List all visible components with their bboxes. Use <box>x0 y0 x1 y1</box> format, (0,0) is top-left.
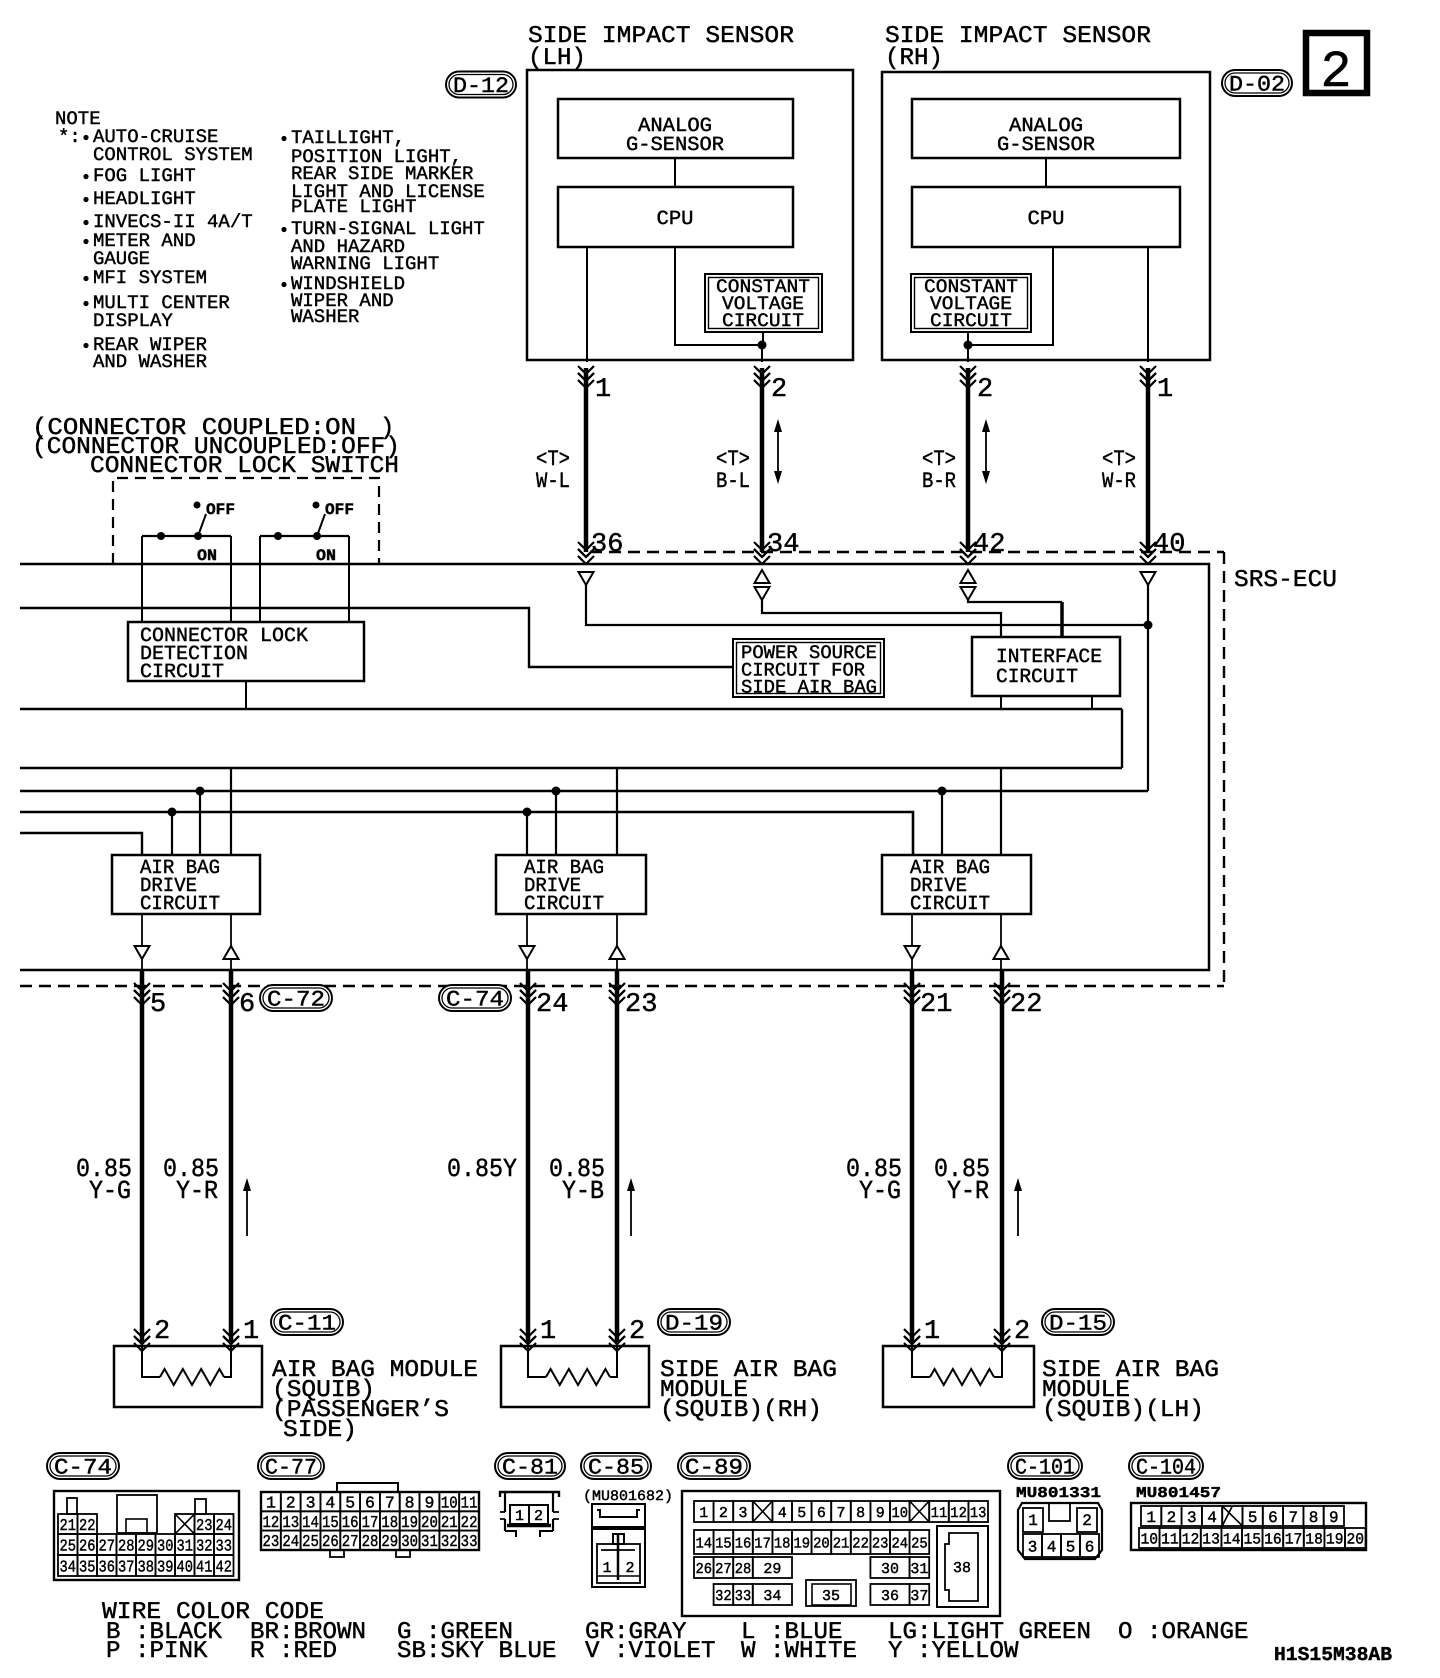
svg-text:39: 39 <box>157 1557 174 1576</box>
connector C-104 pinout label <box>1129 1453 1203 1479</box>
power source circuit box <box>733 639 884 697</box>
svg-text:42: 42 <box>216 1557 233 1576</box>
wire pin36 to node <box>586 585 1148 625</box>
svg-text:CIRCUIT: CIRCUIT <box>930 310 1012 332</box>
svg-text:SIDE AIR BAG: SIDE AIR BAG <box>741 677 877 699</box>
svg-text:CIRCUIT: CIRCUIT <box>140 661 224 684</box>
connector C-101 body <box>1018 1503 1102 1559</box>
svg-text:C-77: C-77 <box>265 1455 317 1480</box>
svg-text:30: 30 <box>881 1561 899 1578</box>
svg-text:22: 22 <box>852 1535 869 1552</box>
svg-text:33: 33 <box>461 1532 478 1551</box>
svg-text:26: 26 <box>322 1532 339 1551</box>
side air bag module squib LH <box>883 1346 1034 1407</box>
bus line L2 to power source <box>20 608 733 667</box>
svg-text:15: 15 <box>322 1513 339 1532</box>
connector C-77 bottom tabs <box>330 1550 344 1557</box>
svg-text:O :ORANGE: O :ORANGE <box>1118 1619 1249 1646</box>
svg-text:18: 18 <box>774 1535 791 1552</box>
harness wires x528/617 <box>526 970 531 1342</box>
svg-text:21: 21 <box>60 1516 77 1535</box>
svg-text:Y-B: Y-B <box>562 1176 604 1206</box>
svg-text:6: 6 <box>1268 1509 1278 1527</box>
svg-text:CIRCUIT: CIRCUIT <box>910 893 990 916</box>
svg-text:30: 30 <box>157 1536 174 1555</box>
svg-text:14: 14 <box>302 1513 319 1532</box>
wire cpu to node RH <box>968 247 1053 345</box>
drive box outputs x912 <box>911 914 913 946</box>
svg-text:P :PINK: P :PINK <box>106 1638 208 1665</box>
svg-text:23: 23 <box>196 1516 213 1535</box>
twisted pair arrow left <box>777 423 779 480</box>
svg-text:C-104: C-104 <box>1136 1455 1196 1480</box>
connector C-81 pinout label <box>495 1453 565 1479</box>
svg-text:B-L: B-L <box>716 469 750 494</box>
svg-text:2: 2 <box>771 375 787 405</box>
svg-text:WASHER: WASHER <box>291 306 359 328</box>
svg-text:9: 9 <box>1329 1509 1339 1527</box>
svg-text:32: 32 <box>441 1532 458 1551</box>
switch 1 <box>142 535 231 537</box>
svg-text:26: 26 <box>696 1561 713 1578</box>
svg-text:36: 36 <box>99 1557 116 1576</box>
svg-text:8: 8 <box>405 1494 415 1513</box>
drive box1 input wires <box>168 808 177 817</box>
cpu LH <box>558 187 793 247</box>
svg-text:28: 28 <box>735 1561 752 1578</box>
svg-text:18: 18 <box>381 1513 398 1532</box>
svg-text:25: 25 <box>302 1532 319 1551</box>
svg-text:3: 3 <box>1187 1509 1197 1527</box>
svg-text:ON: ON <box>197 547 217 565</box>
svg-text:2: 2 <box>534 1508 543 1525</box>
side impact sensor LH box <box>527 70 853 360</box>
svg-text:21: 21 <box>441 1513 458 1532</box>
svg-text:29: 29 <box>763 1561 781 1578</box>
svg-text:OFF: OFF <box>325 501 354 519</box>
svg-text:2: 2 <box>286 1494 296 1513</box>
svg-text:9: 9 <box>876 1505 885 1522</box>
svg-text:21: 21 <box>920 990 952 1020</box>
svg-text:6: 6 <box>365 1494 375 1513</box>
drive box outputs x142 <box>141 914 143 946</box>
sensor output arrow pin 2 x968 <box>960 366 976 374</box>
bus line L6 <box>20 812 913 855</box>
svg-text:C-85: C-85 <box>588 1455 644 1480</box>
svg-text:WARNING LIGHT: WARNING LIGHT <box>291 253 439 275</box>
connector C-89 body <box>682 1491 1000 1616</box>
drive box outputs x527 <box>526 914 528 946</box>
connector D-19 <box>658 1309 730 1335</box>
svg-text:3: 3 <box>1028 1538 1038 1556</box>
direction arrow <box>1017 1182 1019 1236</box>
side impact sensor RH box <box>882 72 1210 360</box>
svg-text:12: 12 <box>950 1505 967 1522</box>
constant voltage circuit LH <box>705 274 822 332</box>
wire cvc to node RH <box>967 332 969 345</box>
svg-text:D-02: D-02 <box>1229 72 1285 97</box>
twisted pair arrow right <box>985 423 987 480</box>
svg-text:25: 25 <box>60 1536 77 1555</box>
svg-text:Y-R: Y-R <box>947 1176 989 1206</box>
svg-text:2: 2 <box>1167 1509 1177 1527</box>
svg-text:16: 16 <box>342 1513 359 1532</box>
side air bag module squib RH <box>501 1346 649 1407</box>
sensor output arrow pin 1 x1148 <box>1140 366 1156 374</box>
svg-text:6: 6 <box>817 1505 826 1522</box>
svg-text:17: 17 <box>754 1535 771 1552</box>
svg-text:20: 20 <box>1347 1531 1365 1549</box>
svg-text:5: 5 <box>1248 1509 1258 1527</box>
svg-text:1: 1 <box>1146 1509 1156 1527</box>
svg-text:11: 11 <box>1161 1531 1179 1549</box>
switch 1 wires <box>141 536 143 622</box>
svg-text:4: 4 <box>1047 1538 1057 1556</box>
svg-text:34: 34 <box>763 1588 781 1605</box>
ECU input triangle pin40 <box>1141 572 1156 585</box>
svg-text:G-SENSOR: G-SENSOR <box>997 134 1095 157</box>
svg-text:24: 24 <box>892 1535 909 1552</box>
svg-text:32: 32 <box>196 1536 213 1555</box>
constant voltage circuit RH <box>911 274 1031 332</box>
svg-text:(SQUIB)(LH): (SQUIB)(LH) <box>1042 1397 1204 1424</box>
connector C-77 top tab <box>337 1483 398 1491</box>
svg-text:2: 2 <box>154 1317 170 1347</box>
svg-text:37: 37 <box>118 1557 135 1576</box>
svg-text:CIRCUIT: CIRCUIT <box>140 893 220 916</box>
wire cvc to node LH <box>762 332 764 345</box>
sensor output arrow pin 1 x586 <box>578 366 594 374</box>
SRS-ECU dashed box <box>590 551 1224 553</box>
wire detection to bus <box>245 681 247 709</box>
svg-text:9: 9 <box>425 1494 435 1513</box>
svg-text:PLATE LIGHT: PLATE LIGHT <box>291 196 416 218</box>
svg-text:*:: *: <box>58 126 81 148</box>
svg-text:10: 10 <box>1141 1531 1159 1549</box>
svg-text:40: 40 <box>177 1557 194 1576</box>
svg-text:14: 14 <box>1223 1531 1241 1549</box>
svg-text:18: 18 <box>1305 1531 1323 1549</box>
svg-text:16: 16 <box>1264 1531 1282 1549</box>
svg-text:R :RED: R :RED <box>250 1638 337 1665</box>
junction pin36/40 <box>1144 621 1153 630</box>
svg-text:34: 34 <box>60 1557 77 1576</box>
analog g-sensor LH <box>558 99 793 158</box>
svg-text:42: 42 <box>973 530 1005 560</box>
air bag drive circuit 2 <box>496 855 646 914</box>
svg-text:CONNECTOR LOCK SWITCH: CONNECTOR LOCK SWITCH <box>90 453 399 480</box>
svg-text:23: 23 <box>625 990 657 1020</box>
air bag module squib passenger <box>114 1346 262 1407</box>
svg-text:29: 29 <box>381 1532 398 1551</box>
svg-text:10: 10 <box>441 1494 458 1513</box>
svg-text:2: 2 <box>625 1560 634 1577</box>
svg-text:C-81: C-81 <box>502 1455 558 1480</box>
svg-text:40: 40 <box>1153 530 1185 560</box>
svg-text:20: 20 <box>813 1535 830 1552</box>
connector C-72 <box>260 985 332 1011</box>
svg-text:41: 41 <box>196 1557 213 1576</box>
svg-text:C-89: C-89 <box>685 1455 743 1480</box>
svg-text:1: 1 <box>699 1505 708 1522</box>
SRS-ECU inner box <box>20 564 1209 970</box>
switch 2 wires <box>259 536 261 622</box>
harness wires x142/231 <box>140 970 145 1342</box>
svg-text:11: 11 <box>461 1494 478 1513</box>
wire cpu pin1 RH <box>1147 247 1149 362</box>
wire sensor to SRS-ECU x586 <box>584 368 589 552</box>
svg-text:15: 15 <box>715 1535 732 1552</box>
direction arrow <box>246 1182 248 1236</box>
bus band bottom L4 <box>20 767 1122 770</box>
svg-text:7: 7 <box>837 1505 846 1522</box>
svg-text:34: 34 <box>767 530 799 560</box>
svg-text:1: 1 <box>266 1494 276 1513</box>
svg-text:C-74: C-74 <box>446 987 504 1012</box>
svg-text:20: 20 <box>421 1513 438 1532</box>
svg-text:C-74: C-74 <box>54 1455 112 1480</box>
svg-text:1: 1 <box>1028 1512 1038 1530</box>
svg-text:B-R: B-R <box>922 469 956 494</box>
svg-text:2: 2 <box>1014 1317 1030 1347</box>
svg-text:1: 1 <box>243 1317 259 1347</box>
svg-text:DISPLAY: DISPLAY <box>93 310 173 332</box>
svg-text:CIRCUIT: CIRCUIT <box>996 666 1078 689</box>
svg-text:5: 5 <box>797 1505 806 1522</box>
svg-text:25: 25 <box>911 1535 928 1552</box>
svg-text:24: 24 <box>216 1516 233 1535</box>
connector D-02 <box>1222 70 1292 96</box>
svg-text:C-72: C-72 <box>267 987 325 1012</box>
svg-text:24: 24 <box>282 1532 299 1551</box>
wire node to pin2 LH <box>761 345 763 362</box>
page number badge 2 <box>1306 33 1367 93</box>
bus band top L3 <box>20 708 1122 711</box>
svg-text:5: 5 <box>1066 1538 1076 1556</box>
svg-text:V :VIOLET: V :VIOLET <box>585 1638 716 1665</box>
svg-text:5: 5 <box>150 990 166 1020</box>
connector C-74 pinout label <box>47 1453 119 1479</box>
svg-text:27: 27 <box>342 1532 359 1551</box>
svg-text:7: 7 <box>385 1494 395 1513</box>
svg-text:W-L: W-L <box>536 469 570 494</box>
bus band right edge <box>1121 709 1123 768</box>
svg-text:1: 1 <box>515 1508 524 1525</box>
svg-text:26: 26 <box>79 1536 96 1555</box>
svg-text:19: 19 <box>794 1535 811 1552</box>
svg-text:(MU801682): (MU801682) <box>583 1489 673 1505</box>
air bag drive circuit 3 <box>882 855 1031 914</box>
svg-text:24: 24 <box>536 990 568 1020</box>
svg-text:27: 27 <box>715 1561 732 1578</box>
svg-text:33: 33 <box>735 1588 752 1605</box>
svg-text:SIDE): SIDE) <box>283 1417 357 1444</box>
connector C-104 body <box>1131 1503 1366 1550</box>
svg-text:38: 38 <box>138 1557 155 1576</box>
connector C-89 cavity 38 <box>937 1526 988 1607</box>
svg-text:CIRCUIT: CIRCUIT <box>524 893 604 916</box>
svg-text:12: 12 <box>1182 1531 1200 1549</box>
connector D-15 <box>1042 1309 1114 1335</box>
svg-text:H1S15M38AB: H1S15M38AB <box>1274 1644 1392 1666</box>
wire cpu pin1 LH <box>586 247 588 362</box>
svg-text:14: 14 <box>696 1535 713 1552</box>
svg-text:2: 2 <box>719 1505 728 1522</box>
svg-text:36: 36 <box>881 1588 899 1605</box>
svg-text:0.85Y: 0.85Y <box>447 1154 517 1184</box>
svg-text:Y-R: Y-R <box>176 1176 218 1206</box>
wire cpu to node LH <box>675 247 762 345</box>
svg-text:AND WASHER: AND WASHER <box>93 351 207 373</box>
analog g-sensor RH <box>912 99 1180 158</box>
svg-text:1: 1 <box>540 1317 556 1347</box>
svg-text:4: 4 <box>325 1494 335 1513</box>
svg-text:2: 2 <box>1320 43 1351 102</box>
svg-text:(SQUIB)(RH): (SQUIB)(RH) <box>660 1397 822 1424</box>
svg-text:35: 35 <box>79 1557 96 1576</box>
svg-text:CIRCUIT: CIRCUIT <box>722 310 804 332</box>
svg-text:CPU: CPU <box>657 208 694 231</box>
svg-text:23: 23 <box>872 1535 889 1552</box>
air bag drive circuit 1 <box>112 855 260 914</box>
svg-text:Y-G: Y-G <box>859 1176 901 1206</box>
bus line L7 <box>20 833 142 855</box>
cpu RH <box>912 187 1180 247</box>
svg-text:4: 4 <box>778 1505 787 1522</box>
junction node RH <box>964 341 973 350</box>
svg-text:31: 31 <box>421 1532 438 1551</box>
harness wires x912/1002 <box>910 970 915 1342</box>
interface circuit box <box>972 637 1120 696</box>
svg-text:19: 19 <box>1326 1531 1344 1549</box>
svg-text:13: 13 <box>970 1505 987 1522</box>
svg-text:C-11: C-11 <box>278 1311 336 1336</box>
svg-text:D-15: D-15 <box>1049 1311 1107 1336</box>
wire sensor to SRS-ECU x762 <box>760 368 765 552</box>
svg-text:2: 2 <box>977 375 993 405</box>
connector lock switch dashed box <box>113 478 379 564</box>
svg-text:36: 36 <box>591 530 623 560</box>
svg-text:ON: ON <box>316 547 336 565</box>
svg-text:13: 13 <box>1202 1531 1220 1549</box>
svg-text:8: 8 <box>856 1505 865 1522</box>
svg-text:19: 19 <box>401 1513 418 1532</box>
svg-text:2: 2 <box>629 1317 645 1347</box>
svg-text:D-12: D-12 <box>453 74 509 99</box>
svg-text:23: 23 <box>263 1532 280 1551</box>
svg-text:17: 17 <box>1285 1531 1303 1549</box>
wire sensor to SRS-ECU x1148 <box>1146 368 1151 552</box>
svg-text:2: 2 <box>1082 1512 1092 1530</box>
ECU input triangle pin36 <box>579 572 594 585</box>
svg-text:CONTROL SYSTEM: CONTROL SYSTEM <box>93 144 253 166</box>
svg-text:7: 7 <box>1288 1509 1298 1527</box>
svg-text:MFI SYSTEM: MFI SYSTEM <box>93 267 207 289</box>
svg-text:22: 22 <box>461 1513 478 1532</box>
svg-text:HEADLIGHT: HEADLIGHT <box>93 188 196 210</box>
svg-text:31: 31 <box>910 1561 928 1578</box>
connector C-101 pinout label <box>1008 1453 1082 1479</box>
connector D-12 <box>446 72 516 98</box>
svg-text:3: 3 <box>306 1494 316 1513</box>
svg-text:6: 6 <box>1085 1538 1095 1556</box>
svg-text:21: 21 <box>833 1535 850 1552</box>
bus line L5 <box>20 790 1148 793</box>
connector C-74 pinout body <box>54 1491 239 1580</box>
direction arrow <box>630 1182 632 1236</box>
wire pin40 down <box>1147 585 1149 791</box>
svg-text:29: 29 <box>138 1536 155 1555</box>
svg-text:1: 1 <box>924 1317 940 1347</box>
wire g-sensor to cpu RH <box>1045 158 1047 187</box>
svg-text:SRS-ECU: SRS-ECU <box>1234 567 1337 594</box>
svg-text:17: 17 <box>362 1513 379 1532</box>
svg-text:MU801331: MU801331 <box>1016 1485 1101 1502</box>
svg-text:8: 8 <box>1309 1509 1319 1527</box>
interface to bus stubs <box>1000 696 1002 709</box>
connector C-85 pinout label <box>581 1453 651 1479</box>
svg-text:W :WHITE: W :WHITE <box>741 1638 857 1665</box>
switch 2 <box>260 535 349 537</box>
drive box3 input wires <box>938 787 947 796</box>
svg-text:1: 1 <box>595 375 611 405</box>
svg-text:30: 30 <box>401 1532 418 1551</box>
svg-text:5: 5 <box>345 1494 355 1513</box>
wire g-sensor to cpu LH <box>674 158 676 187</box>
junction node LH <box>758 341 767 350</box>
connector C-89 pinout label <box>678 1453 750 1479</box>
wire sensor to SRS-ECU x968 <box>966 368 971 552</box>
drive box2 input wires <box>523 808 532 817</box>
svg-text:33: 33 <box>216 1536 233 1555</box>
svg-text:Y :YELLOW: Y :YELLOW <box>888 1638 1019 1665</box>
svg-text:W-R: W-R <box>1102 469 1136 494</box>
svg-text:Y-G: Y-G <box>89 1176 131 1206</box>
svg-text:35: 35 <box>822 1588 840 1605</box>
svg-text:11: 11 <box>931 1505 948 1522</box>
svg-text:38: 38 <box>953 1560 971 1577</box>
svg-text:15: 15 <box>1244 1531 1262 1549</box>
svg-text:22: 22 <box>1010 990 1042 1020</box>
svg-text:OFF: OFF <box>206 501 235 519</box>
svg-text:C-101: C-101 <box>1015 1455 1075 1480</box>
svg-text:(LH): (LH) <box>528 45 586 72</box>
svg-text:31: 31 <box>177 1536 194 1555</box>
connector lock detection circuit <box>128 622 364 681</box>
sensor output arrow pin 2 x762 <box>754 366 770 374</box>
connector C-81 body <box>500 1492 559 1497</box>
svg-text:16: 16 <box>735 1535 752 1552</box>
svg-text:12: 12 <box>263 1513 280 1532</box>
svg-text:MU801457: MU801457 <box>1136 1485 1221 1502</box>
connector C-85 body <box>592 1504 645 1587</box>
svg-text:4: 4 <box>1207 1509 1217 1527</box>
connector C-77 pinout body <box>261 1492 479 1550</box>
svg-text:10: 10 <box>892 1505 909 1522</box>
svg-text:37: 37 <box>910 1588 928 1605</box>
svg-text:1: 1 <box>1157 375 1173 405</box>
wire node to pin2 RH <box>967 345 969 362</box>
svg-text:(RH): (RH) <box>885 45 943 72</box>
wire pin34 to interface <box>762 600 1001 637</box>
ECU triangles pin34 <box>755 570 770 583</box>
ECU triangles pin42 <box>961 570 976 583</box>
svg-text:27: 27 <box>99 1536 116 1555</box>
wire pin42 to interface <box>968 600 1062 602</box>
svg-text:FOG LIGHT: FOG LIGHT <box>93 165 196 187</box>
svg-text:G-SENSOR: G-SENSOR <box>626 134 724 157</box>
svg-text:SB:SKY BLUE: SB:SKY BLUE <box>397 1638 557 1665</box>
